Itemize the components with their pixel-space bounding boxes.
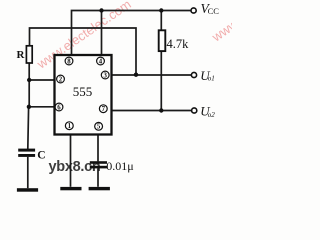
svg-text:0.01μ: 0.01μ [106, 159, 133, 173]
svg-text:3: 3 [103, 72, 107, 79]
svg-text:4.7k: 4.7k [167, 37, 190, 51]
svg-text:1: 1 [68, 123, 72, 130]
svg-text:C: C [37, 150, 45, 162]
svg-text:CC: CC [208, 6, 220, 16]
svg-text:6: 6 [57, 104, 61, 111]
svg-text:7: 7 [102, 106, 106, 113]
svg-text:5: 5 [97, 124, 101, 131]
svg-text:8: 8 [67, 58, 71, 65]
svg-text:o1: o1 [208, 75, 215, 83]
svg-text:2: 2 [59, 76, 63, 83]
svg-text:4: 4 [99, 58, 103, 65]
svg-text:R: R [17, 49, 26, 61]
svg-text:o2: o2 [208, 111, 216, 119]
svg-text:555: 555 [73, 84, 93, 99]
